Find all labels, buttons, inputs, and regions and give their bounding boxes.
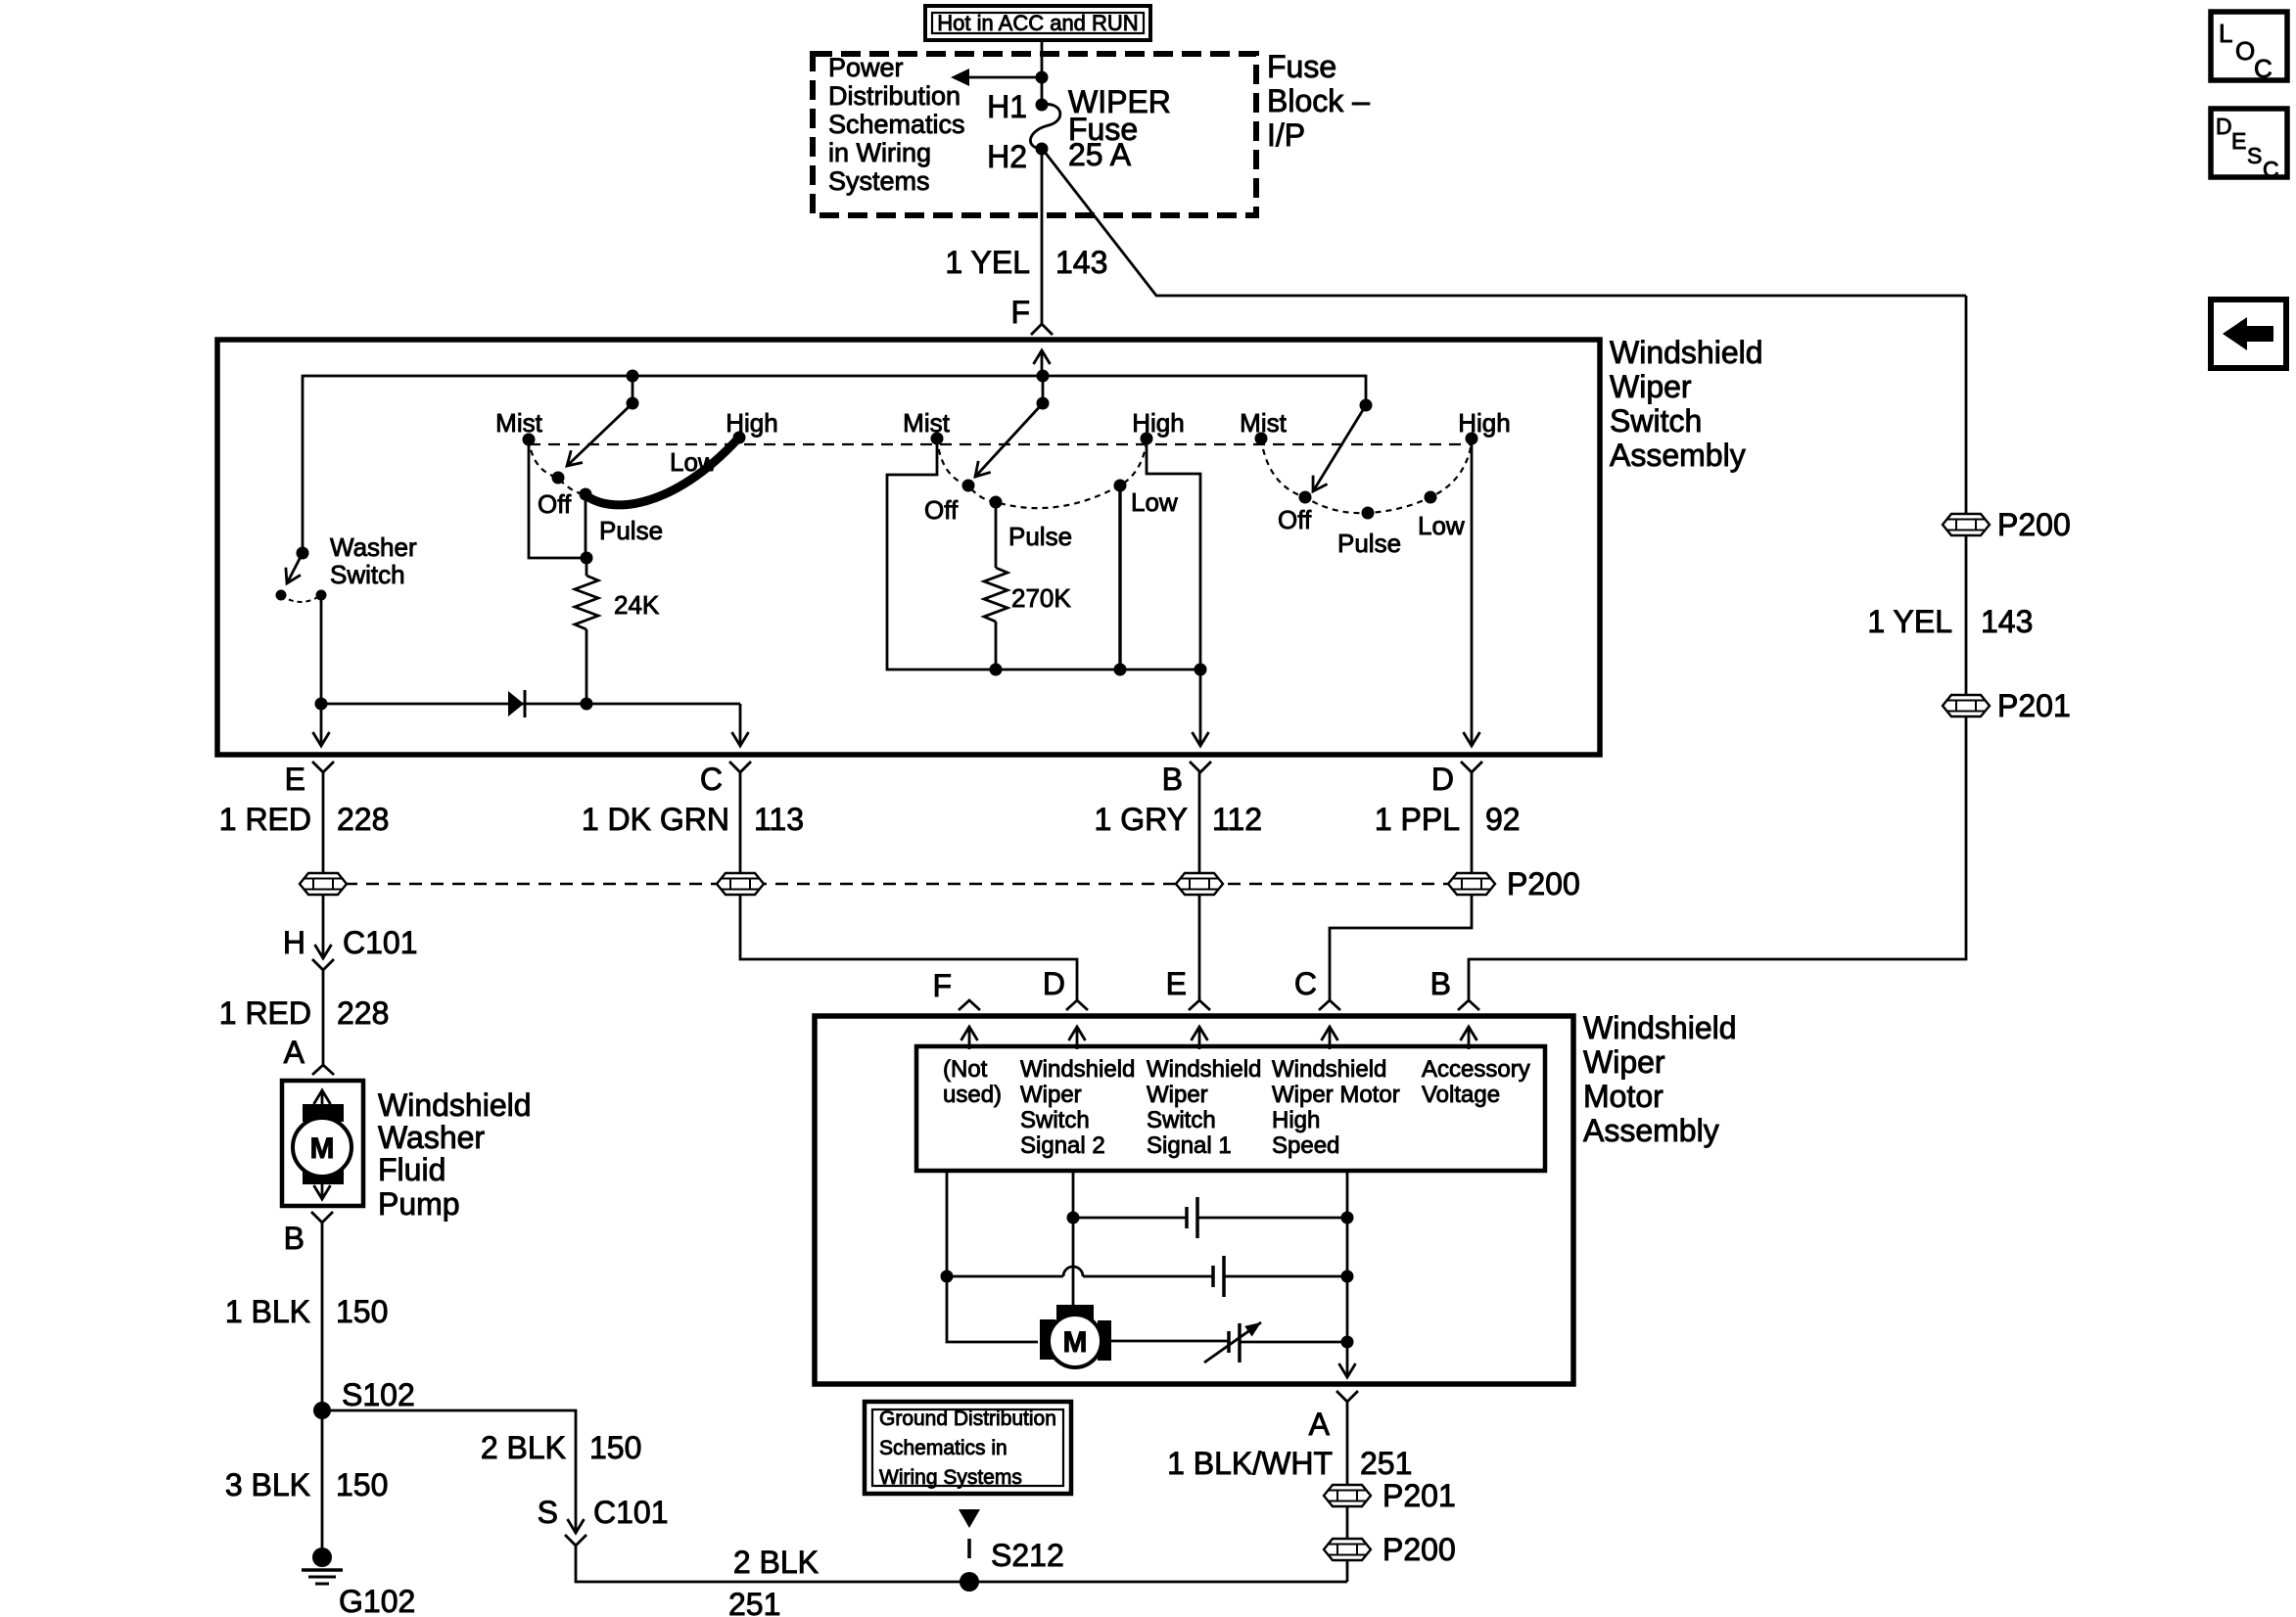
svg-text:High: High <box>726 408 777 438</box>
wire col2 to motor top <box>1072 1171 1075 1306</box>
svg-text:Accessory: Accessory <box>1422 1056 1530 1083</box>
svg-text:1 GRY: 1 GRY <box>1095 802 1188 837</box>
svg-text:Off: Off <box>1278 505 1312 534</box>
wire label 1 BLK/WHT 251 <box>1167 1446 1412 1481</box>
power distribution branch arrow <box>951 69 1049 86</box>
svg-text:Mist: Mist <box>495 408 542 438</box>
svg-text:P200: P200 <box>1997 507 2071 542</box>
wire Low2 down <box>1118 485 1121 670</box>
svg-text:used): used) <box>943 1082 1002 1108</box>
svg-text:92: 92 <box>1485 802 1521 837</box>
terminal E of motor <box>1166 966 1210 1010</box>
svg-text:Distribution: Distribution <box>828 81 961 111</box>
svg-text:D: D <box>2216 114 2232 139</box>
svg-text:Off: Off <box>924 495 959 525</box>
switch 2 Off contact <box>962 480 975 492</box>
svg-text:B: B <box>284 1221 305 1256</box>
wire label 1 PPL 92 <box>1375 802 1521 837</box>
svg-text:B: B <box>1430 966 1451 1001</box>
pin E description <box>1147 1056 1261 1159</box>
svg-text:Speed: Speed <box>1272 1132 1339 1159</box>
svg-text:Block –: Block – <box>1267 83 1370 118</box>
svg-text:Wiper Motor: Wiper Motor <box>1272 1082 1400 1108</box>
svg-text:1 YEL: 1 YEL <box>945 245 1030 280</box>
ground distribution reference box <box>865 1402 1071 1494</box>
switch 2 Mist contact <box>931 433 944 445</box>
svg-text:S: S <box>2247 143 2262 168</box>
svg-text:Pulse: Pulse <box>1337 529 1401 558</box>
svg-text:Wiper: Wiper <box>1020 1082 1082 1108</box>
connector C101 pin H <box>283 925 418 970</box>
pin C description <box>1272 1056 1400 1159</box>
motor M armature <box>1040 1305 1111 1367</box>
terminal C of motor <box>1294 966 1340 1010</box>
motor signal description box <box>916 1046 1545 1171</box>
washer switch label <box>330 532 417 589</box>
wire B to P200 <box>1198 772 1201 873</box>
pin B description <box>1422 1056 1530 1108</box>
terminal B below switch box <box>1162 762 1211 797</box>
svg-text:C: C <box>1294 966 1317 1001</box>
svg-text:L: L <box>2219 19 2232 48</box>
svg-text:F: F <box>932 968 952 1003</box>
wire fuse H2 down to F <box>1041 149 1044 324</box>
DESC reference box <box>2211 109 2287 182</box>
wire label 2 BLK 251 <box>728 1545 819 1617</box>
back-arrow navigation box <box>2211 300 2286 368</box>
connector P201 (motor A wire) <box>1324 1478 1456 1513</box>
svg-text:1 PPL: 1 PPL <box>1375 802 1460 837</box>
svg-text:D: D <box>1043 966 1065 1001</box>
svg-text:1 BLK/WHT: 1 BLK/WHT <box>1167 1446 1333 1481</box>
svg-text:C: C <box>2263 157 2279 182</box>
svg-text:in Wiring: in Wiring <box>828 138 931 167</box>
svg-text:E: E <box>2231 128 2246 154</box>
svg-text:Systems: Systems <box>828 166 930 196</box>
svg-text:C: C <box>2254 54 2273 83</box>
svg-text:G102: G102 <box>339 1584 415 1617</box>
svg-text:Signal 1: Signal 1 <box>1147 1132 1232 1159</box>
svg-text:Voltage: Voltage <box>1422 1082 1500 1108</box>
wire label 1 RED 228 <box>219 802 390 837</box>
switch 3 wiper arm <box>1313 405 1366 491</box>
wire right vertical 1 YEL 143 <box>1469 296 1966 1000</box>
Fuse Block I/P label <box>1267 49 1370 153</box>
svg-text:1 RED: 1 RED <box>219 995 311 1031</box>
wire label 2 BLK 150 <box>481 1430 642 1465</box>
terminal D below switch box <box>1431 762 1482 797</box>
wire pump B to S102 <box>321 1223 324 1410</box>
switch 2 Pulse contact <box>990 496 1003 509</box>
svg-text:Motor: Motor <box>1583 1079 1663 1114</box>
pin D description <box>1020 1056 1135 1159</box>
wire label 1 DK GRN 113 <box>582 802 804 837</box>
switch 3 Mist contact <box>1255 433 1268 445</box>
node rail/F <box>1037 370 1050 383</box>
svg-text:113: 113 <box>754 802 804 837</box>
svg-text:Windshield: Windshield <box>1020 1056 1135 1083</box>
switch 1 Pulse contact <box>580 488 592 501</box>
svg-text:1 RED: 1 RED <box>219 802 311 837</box>
svg-text:Pulse: Pulse <box>1008 522 1072 551</box>
terminal B of motor <box>1430 966 1479 1010</box>
Power Distribution note text <box>828 53 965 196</box>
switch 3 pivot <box>1360 399 1373 412</box>
motor internal pin arrows <box>969 1027 1469 1049</box>
connector P200 pin E <box>300 873 347 895</box>
switch 1 High contact <box>733 432 746 444</box>
terminal B below pump <box>284 1212 333 1256</box>
wire C101 S to S212 run <box>576 1546 1347 1582</box>
switch 2 High contact <box>1141 433 1153 445</box>
svg-text:143: 143 <box>1055 245 1107 280</box>
svg-text:P201: P201 <box>1997 688 2071 723</box>
svg-text:P201: P201 <box>1382 1478 1456 1513</box>
svg-text:Switch: Switch <box>1147 1107 1216 1133</box>
fuse block dashed box <box>813 54 1256 215</box>
F wire entering switch box <box>1041 350 1044 376</box>
wire Pulse1 down <box>585 494 587 558</box>
svg-text:I/P: I/P <box>1267 117 1305 153</box>
wire E to P200 <box>322 772 325 873</box>
svg-text:H2: H2 <box>987 139 1027 174</box>
svg-text:Low: Low <box>1418 511 1465 540</box>
terminal C below switch box <box>700 762 751 797</box>
svg-text:228: 228 <box>337 995 389 1031</box>
wire to C terminal <box>739 704 742 746</box>
pin F description <box>943 1056 1002 1108</box>
svg-text:Low: Low <box>1131 487 1178 517</box>
switch 3 Pulse contact <box>1362 507 1375 520</box>
splice S102 <box>313 1377 415 1419</box>
svg-text:112: 112 <box>1212 802 1262 837</box>
switch 1 pivot stub <box>632 376 634 403</box>
connector P201 (right wire) <box>1943 688 2071 723</box>
wire H2 diagonal to right side <box>1044 151 1966 296</box>
wire col1 to motor <box>947 1171 1038 1342</box>
svg-text:Wiper: Wiper <box>1147 1082 1208 1108</box>
svg-text:A: A <box>1309 1407 1331 1442</box>
svg-text:150: 150 <box>589 1430 641 1465</box>
switch 2 Mist enclosure wire <box>887 439 1200 670</box>
switch 3 dashed travel arc <box>1261 439 1472 513</box>
ground distribution pointer <box>959 1509 980 1558</box>
wire switch B to motor E <box>1198 895 1201 1000</box>
pump internal arrows and motor <box>293 1090 351 1199</box>
svg-text:Washer: Washer <box>378 1120 485 1155</box>
svg-text:150: 150 <box>336 1467 388 1502</box>
svg-text:251: 251 <box>728 1587 780 1617</box>
terminal F of switch assembly <box>1010 295 1053 335</box>
wire High3 to D terminal <box>1471 439 1474 746</box>
wire label 1 YEL 143 (right) <box>1867 604 2033 639</box>
svg-text:Power: Power <box>828 53 904 82</box>
svg-text:Windshield: Windshield <box>378 1087 532 1123</box>
svg-text:Wiper: Wiper <box>1583 1044 1665 1080</box>
dashed alignment line across switches <box>529 443 1472 445</box>
terminal F of motor (not used) <box>932 968 980 1010</box>
windshield washer fluid pump box <box>282 1081 363 1206</box>
windshield wiper motor assembly box <box>815 1016 1573 1384</box>
svg-text:Wiper: Wiper <box>1610 369 1692 404</box>
terminal A below motor box <box>1309 1391 1358 1442</box>
washer switch contacts <box>276 590 287 601</box>
svg-text:143: 143 <box>1981 604 2033 639</box>
connector P200 (right wire) <box>1943 507 2071 542</box>
wire P200 to C101 <box>322 895 325 958</box>
svg-text:H1: H1 <box>987 89 1027 124</box>
svg-text:24K: 24K <box>614 590 660 620</box>
svg-text:1 YEL: 1 YEL <box>1867 604 1952 639</box>
wire High2 to B terminal <box>1147 439 1200 746</box>
svg-text:P200: P200 <box>1382 1532 1456 1567</box>
ground G102 <box>302 1548 415 1617</box>
resistor 24K <box>575 558 660 704</box>
svg-text:C: C <box>700 762 723 797</box>
label Windshield Wiper Switch Assembly <box>1610 335 1763 473</box>
wire washer to E <box>320 595 323 704</box>
svg-text:Switch: Switch <box>1020 1107 1090 1133</box>
svg-text:M: M <box>1063 1326 1088 1359</box>
svg-text:(Not: (Not <box>943 1056 988 1083</box>
terminal D of motor <box>1043 966 1088 1010</box>
wire label 1 RED 228 (lower) <box>219 995 390 1031</box>
connector P200 pin C <box>717 873 764 895</box>
svg-text:Schematics in: Schematics in <box>879 1437 1007 1459</box>
switch 1 Off contact <box>552 472 565 485</box>
svg-text:H: H <box>283 925 305 960</box>
washer switch arm <box>287 553 303 583</box>
wire label 1 YEL 143 (top) <box>945 245 1107 280</box>
switch 1 Mist contact <box>523 434 536 446</box>
wire switch C to motor D <box>740 895 1077 1000</box>
variable resistor row 3 <box>1111 1322 1347 1363</box>
svg-text:Switch: Switch <box>330 560 405 589</box>
svg-text:251: 251 <box>1360 1446 1412 1481</box>
switch 2 wiper arm <box>975 403 1043 477</box>
svg-text:C101: C101 <box>593 1495 669 1530</box>
switch 3 High contact <box>1466 433 1478 445</box>
svg-text:Wiring Systems: Wiring Systems <box>879 1466 1022 1489</box>
wire from hot box to fuse <box>1041 40 1044 105</box>
P200 harness dashed link <box>345 883 1450 885</box>
switch 2 pivot stub <box>1042 376 1045 403</box>
node diode/24K <box>581 698 593 711</box>
connector C101 pin S <box>538 1495 669 1546</box>
svg-text:Fuse: Fuse <box>1267 49 1336 84</box>
connector P200 (motor A wire) <box>1324 1532 1456 1567</box>
svg-text:Switch: Switch <box>1610 403 1702 439</box>
wire S102 to C101 S <box>322 1410 576 1533</box>
wire S102 to G102 <box>321 1410 324 1557</box>
svg-text:2 BLK: 2 BLK <box>481 1430 566 1465</box>
svg-text:Schematics: Schematics <box>828 110 965 139</box>
resistor 270K <box>984 502 1071 670</box>
switch 2 Low contact <box>1114 480 1127 492</box>
capacitor row 1 <box>1073 1197 1347 1238</box>
svg-text:25 A: 25 A <box>1068 137 1132 172</box>
svg-text:Windshield: Windshield <box>1272 1056 1386 1083</box>
wire label 1 BLK 150 <box>225 1294 389 1329</box>
capacitor row 2 with wire hop <box>947 1256 1347 1297</box>
svg-text:Ground Distribution: Ground Distribution <box>879 1408 1056 1430</box>
node rail/switch1 <box>627 370 639 383</box>
svg-text:A: A <box>284 1035 305 1070</box>
wire C to P200 <box>739 772 742 873</box>
switch 1 dashed travel arc <box>529 439 584 494</box>
svg-text:1 BLK: 1 BLK <box>225 1294 310 1329</box>
wire label 3 BLK 150 <box>225 1467 389 1502</box>
splice S212 <box>960 1538 1064 1592</box>
wire motor A down <box>1346 1402 1349 1582</box>
svg-text:F: F <box>1010 295 1030 330</box>
svg-text:Pump: Pump <box>378 1186 460 1222</box>
svg-text:2 BLK: 2 BLK <box>733 1545 819 1580</box>
svg-text:1 DK GRN: 1 DK GRN <box>582 802 729 837</box>
LOC reference box <box>2211 12 2287 83</box>
connector P200 pin D <box>1448 866 1580 901</box>
svg-text:Off: Off <box>538 489 572 519</box>
svg-text:Pulse: Pulse <box>599 516 663 545</box>
terminal E below switch box <box>285 762 334 797</box>
switch 3 Off contact <box>1299 491 1312 504</box>
svg-text:D: D <box>1431 762 1454 797</box>
wire switch D to motor C <box>1330 895 1472 1000</box>
svg-text:Assembly: Assembly <box>1583 1113 1719 1148</box>
svg-text:3 BLK: 3 BLK <box>225 1467 310 1502</box>
label Windshield Wiper Motor Assembly <box>1583 1010 1737 1148</box>
svg-text:Signal 2: Signal 2 <box>1020 1132 1105 1159</box>
washer switch pivot <box>297 547 309 560</box>
svg-text:Fluid: Fluid <box>378 1152 445 1187</box>
svg-text:Windshield: Windshield <box>1583 1010 1737 1045</box>
Hot in ACC and RUN box <box>925 6 1150 40</box>
svg-text:B: B <box>1162 762 1183 797</box>
wire Mist1 down <box>529 439 586 558</box>
svg-text:S212: S212 <box>991 1538 1064 1573</box>
svg-text:Windshield: Windshield <box>1610 335 1763 370</box>
svg-text:P200: P200 <box>1507 866 1580 901</box>
wire D to P200 <box>1471 772 1474 873</box>
windshield wiper switch assembly box <box>217 340 1600 755</box>
svg-text:Mist: Mist <box>1240 408 1287 438</box>
switch 3 Low contact <box>1425 491 1437 504</box>
wire label 1 GRY 112 <box>1095 802 1262 837</box>
svg-text:S102: S102 <box>342 1377 415 1412</box>
svg-text:O: O <box>2235 36 2255 66</box>
terminal A of washer pump <box>284 1035 334 1075</box>
svg-text:150: 150 <box>336 1294 388 1329</box>
svg-text:M: M <box>310 1132 335 1165</box>
svg-text:Windshield: Windshield <box>1147 1056 1261 1083</box>
svg-text:Hot in ACC and RUN: Hot in ACC and RUN <box>937 11 1138 35</box>
svg-text:Washer: Washer <box>330 532 417 562</box>
svg-text:228: 228 <box>337 802 389 837</box>
label Windshield Washer Fluid Pump <box>378 1087 532 1222</box>
svg-text:High: High <box>1272 1107 1320 1133</box>
svg-text:Mist: Mist <box>903 408 950 438</box>
connector P200 pin B <box>1176 873 1223 895</box>
diode CR1 <box>508 690 525 717</box>
svg-text:270K: 270K <box>1011 583 1071 613</box>
wire col4 to A with junctions <box>1346 1171 1349 1377</box>
svg-text:High: High <box>1132 408 1184 438</box>
switch 1 contact strip arc (thick) <box>585 439 737 505</box>
svg-text:S: S <box>538 1495 558 1530</box>
svg-text:E: E <box>285 762 305 797</box>
supply rail inside switch box <box>303 376 1366 553</box>
switch 2 dashed travel arc <box>937 439 1147 508</box>
diode CR1 feed line <box>321 703 740 706</box>
svg-text:High: High <box>1458 408 1510 438</box>
wire C101 to pump <box>322 970 325 1065</box>
svg-text:C101: C101 <box>343 925 418 960</box>
washer switch dashed arc <box>281 595 321 602</box>
svg-text:Assembly: Assembly <box>1610 438 1746 473</box>
switch 1 wiper arm <box>567 403 633 466</box>
svg-text:E: E <box>1166 966 1187 1001</box>
fuse F1 WIPER 25A <box>987 84 1171 174</box>
